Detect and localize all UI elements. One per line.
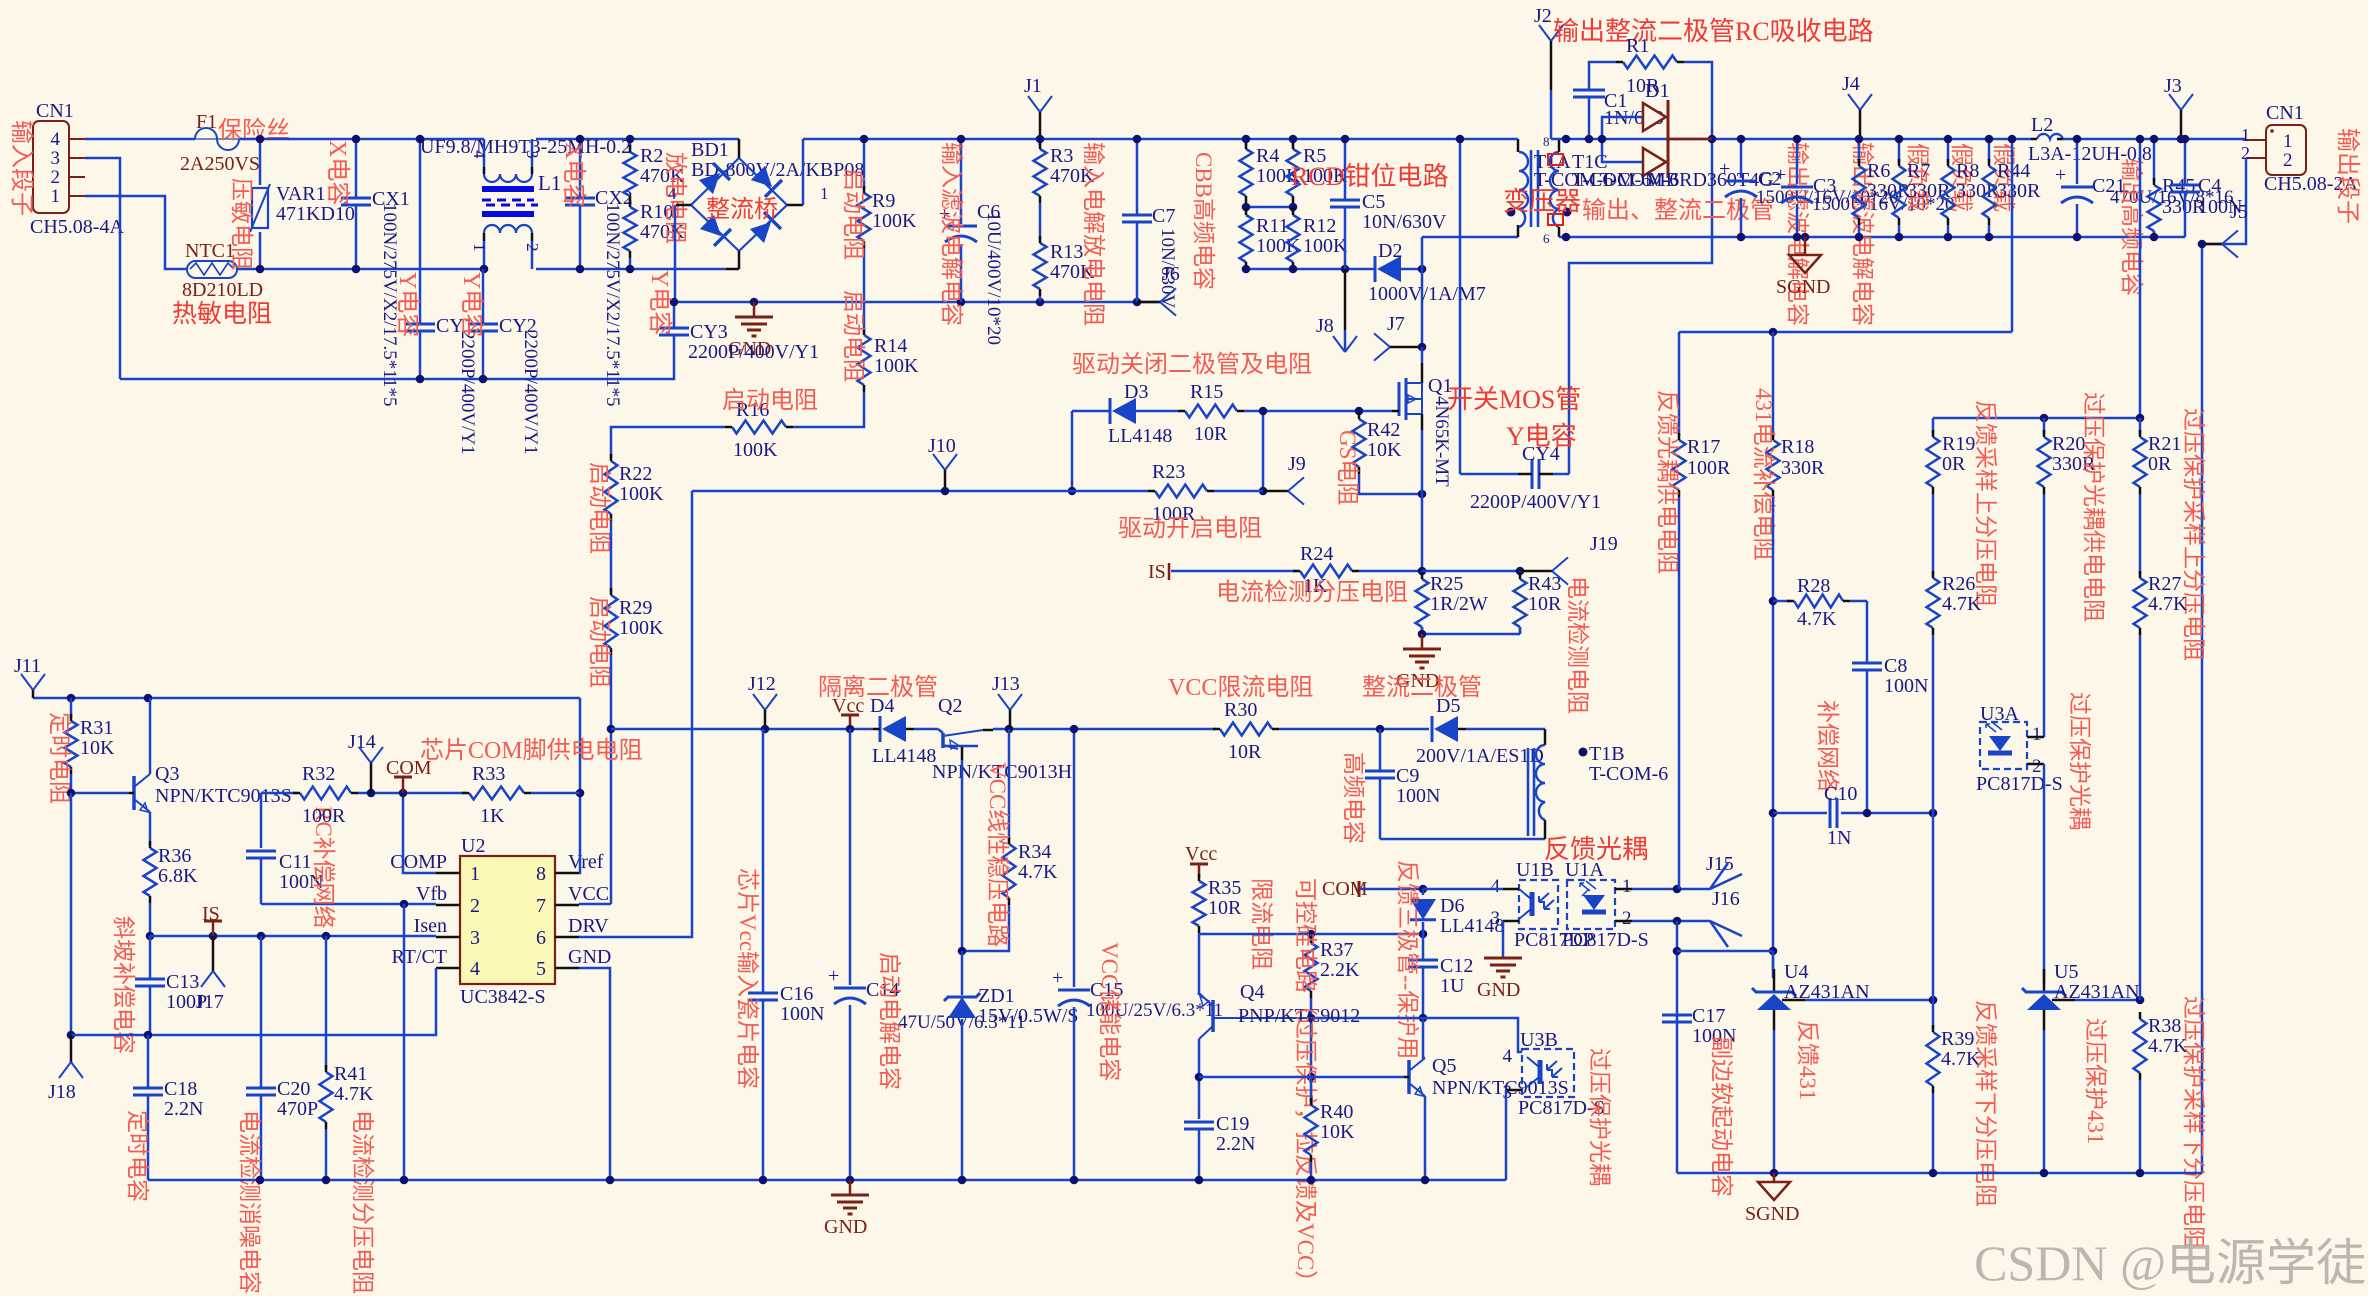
svg-text:C7: C7 bbox=[1152, 205, 1175, 227]
wire U1A pin2 to J16 bbox=[1615, 920, 1632, 923]
svg-text:4.7K: 4.7K bbox=[2148, 593, 2188, 615]
svg-text:J11: J11 bbox=[14, 655, 41, 677]
svg-text:R7: R7 bbox=[1907, 160, 1930, 182]
svg-text:C17: C17 bbox=[1692, 1005, 1725, 1027]
resistor R37 bbox=[1310, 934, 1313, 940]
resistor R20 bbox=[2043, 418, 2046, 434]
svg-text:X电容: X电容 bbox=[324, 140, 351, 205]
svg-text:R20: R20 bbox=[2052, 433, 2085, 455]
svg-text:VCC储能电容: VCC储能电容 bbox=[1097, 942, 1122, 1081]
svg-text:6.8K: 6.8K bbox=[158, 865, 198, 887]
transistor Q5 bbox=[1407, 1060, 1411, 1094]
svg-text:R41: R41 bbox=[334, 1063, 367, 1085]
signal ground SGND (bottom) bbox=[1773, 1173, 1776, 1182]
resistor R1 bbox=[1623, 56, 1677, 69]
svg-text:J5: J5 bbox=[2230, 201, 2248, 223]
wire comp network row R32/R33 bbox=[260, 793, 263, 848]
svg-text:CBB高频电容: CBB高频电容 bbox=[1191, 152, 1216, 290]
wire DRV row bbox=[692, 490, 1148, 493]
svg-text:D4: D4 bbox=[870, 695, 894, 717]
svg-text:D2: D2 bbox=[1378, 240, 1402, 262]
svg-text:3: 3 bbox=[470, 927, 480, 949]
svg-text:VCC限流电阻: VCC限流电阻 bbox=[1168, 674, 1313, 701]
svg-text:+: + bbox=[1052, 967, 1063, 989]
svg-text:1000V/1A/M7: 1000V/1A/M7 bbox=[1368, 283, 1486, 305]
svg-text:3: 3 bbox=[523, 150, 542, 159]
svg-text:T-COM-6: T-COM-6 bbox=[1589, 763, 1668, 785]
resistor R13 bbox=[1034, 243, 1047, 289]
capacitor C1 bbox=[1573, 89, 1605, 92]
svg-text:C4: C4 bbox=[2198, 175, 2221, 197]
svg-text:LL4148: LL4148 bbox=[1108, 425, 1172, 447]
svg-text:1: 1 bbox=[51, 186, 61, 207]
svg-text:7: 7 bbox=[536, 895, 546, 917]
wire IS to R24 bbox=[1171, 570, 1297, 573]
resistor R22 bbox=[605, 461, 618, 514]
svg-text:反馈采样下分压电阻: 反馈采样下分压电阻 bbox=[1973, 1000, 1998, 1207]
ground GND symbol (bridge) bbox=[753, 302, 756, 316]
svg-text:DRV: DRV bbox=[568, 915, 609, 937]
electrolytic C15 bbox=[1073, 729, 1076, 987]
svg-text:VCC线性稳压电路: VCC线性稳压电路 bbox=[985, 762, 1010, 947]
svg-text:T1B: T1B bbox=[1589, 743, 1625, 765]
wire C9 bottom to T1B bottom bbox=[1380, 838, 1545, 841]
svg-text:芯片COM脚供电电阻: 芯片COM脚供电电阻 bbox=[420, 737, 643, 764]
wire bus into transformer top pin bbox=[1517, 139, 1520, 152]
svg-text:100K: 100K bbox=[872, 210, 917, 232]
svg-text:CN1: CN1 bbox=[2266, 102, 2304, 124]
svg-text:R33: R33 bbox=[472, 763, 505, 785]
wire source down to sense bbox=[1421, 430, 1424, 494]
svg-text:+: + bbox=[1719, 158, 1730, 180]
resistor R44 bbox=[1988, 139, 1991, 163]
svg-text:R15: R15 bbox=[1190, 381, 1223, 403]
svg-text:R9: R9 bbox=[872, 190, 895, 212]
svg-text:C8: C8 bbox=[1884, 655, 1907, 677]
wire U3B pin3 down to gnd bus bbox=[1505, 1090, 1508, 1180]
svg-text:C16: C16 bbox=[780, 983, 813, 1005]
svg-text:RCD钳位电路: RCD钳位电路 bbox=[1291, 162, 1448, 191]
svg-text:启动电解电容: 启动电解电容 bbox=[877, 952, 902, 1090]
svg-text:U4: U4 bbox=[1784, 961, 1808, 983]
svg-text:J15: J15 bbox=[1706, 853, 1734, 875]
svg-text:F1: F1 bbox=[196, 111, 217, 133]
svg-text:R26: R26 bbox=[1942, 573, 1975, 595]
wire Vref pin up to loop bbox=[579, 698, 580, 873]
wire R19/R26 chain down to ref bbox=[1932, 813, 1935, 1029]
wire R42 bottom to source bbox=[1359, 474, 1422, 494]
svg-text:100N: 100N bbox=[1396, 785, 1440, 807]
wire R35 bottom row bbox=[1198, 933, 1201, 995]
svg-text:C18: C18 bbox=[164, 1078, 197, 1100]
svg-text:CN1: CN1 bbox=[36, 100, 74, 122]
wire R29 to VCC node bbox=[610, 655, 613, 904]
resistor R5 bbox=[1292, 139, 1295, 146]
svg-text:IS: IS bbox=[1148, 561, 1166, 583]
svg-text:GND: GND bbox=[568, 946, 611, 968]
svg-text:Q3: Q3 bbox=[155, 763, 179, 785]
svg-text:GS电阻: GS电阻 bbox=[1335, 430, 1360, 505]
wire feedback tap row bbox=[1679, 331, 2012, 334]
ground GND (sense) bbox=[1421, 634, 1424, 648]
svg-text:驱动关闭二极管及电阻: 驱动关闭二极管及电阻 bbox=[1072, 351, 1312, 378]
resistor R33 bbox=[469, 787, 524, 800]
wire U4 ref to R39 bbox=[1782, 999, 1805, 1002]
resistor R31 bbox=[70, 698, 73, 718]
svg-text:R42: R42 bbox=[1367, 419, 1400, 441]
svg-text:Q4: Q4 bbox=[1240, 981, 1264, 1003]
wire timing row RT/CT bbox=[71, 968, 436, 1035]
svg-text:10R: 10R bbox=[1194, 423, 1228, 445]
wire R31 to base node bbox=[71, 774, 129, 793]
svg-text:电流检测电阻: 电流检测电阻 bbox=[1565, 576, 1590, 714]
resistor R36 bbox=[144, 848, 157, 896]
svg-text:定时电容: 定时电容 bbox=[125, 1110, 150, 1202]
svg-text:R13: R13 bbox=[1050, 241, 1083, 263]
svg-text:3: 3 bbox=[51, 148, 61, 169]
svg-text:R6: R6 bbox=[1867, 160, 1890, 182]
wire R16 left down to R22 bbox=[611, 427, 725, 458]
wire clamp bottom row bbox=[1246, 268, 1375, 271]
svg-text:100K: 100K bbox=[874, 355, 919, 377]
wire Q2 emitter down bbox=[961, 747, 964, 760]
svg-text:R40: R40 bbox=[1320, 1101, 1353, 1123]
svg-text:反馈光耦供电电阻: 反馈光耦供电电阻 bbox=[1655, 390, 1680, 574]
wire Vfb row bbox=[261, 903, 436, 906]
svg-text:开关MOS管: 开关MOS管 bbox=[1447, 385, 1581, 414]
wire R1 right leg down bbox=[1569, 62, 1712, 474]
wire x71 down to timing row bbox=[70, 793, 73, 1035]
resistor R17 bbox=[1678, 332, 1681, 437]
svg-text:10K: 10K bbox=[1320, 1121, 1355, 1143]
svg-text:输出段子: 输出段子 bbox=[2334, 128, 2361, 224]
resistor R11 bbox=[1240, 215, 1253, 262]
svg-text:R12: R12 bbox=[1303, 215, 1336, 237]
svg-text:R22: R22 bbox=[619, 463, 652, 485]
svg-text:驱动开启电阻: 驱动开启电阻 bbox=[1118, 515, 1262, 542]
svg-text:J6: J6 bbox=[1162, 263, 1180, 285]
svg-text:PC817D-S: PC817D-S bbox=[1976, 773, 2063, 795]
varistor VAR1 bbox=[259, 139, 262, 185]
svg-text:100N: 100N bbox=[780, 1003, 824, 1025]
svg-text:100K: 100K bbox=[1303, 235, 1348, 257]
svg-text:J8: J8 bbox=[1316, 315, 1334, 337]
capacitor C11 bbox=[246, 850, 276, 853]
svg-text:1N: 1N bbox=[1827, 827, 1851, 849]
resistor R8 bbox=[1947, 139, 1950, 163]
svg-text:1: 1 bbox=[470, 863, 480, 885]
wire node row 1018 bbox=[1311, 1018, 1522, 1052]
svg-text:J1: J1 bbox=[1024, 75, 1042, 97]
svg-text:R3: R3 bbox=[1050, 145, 1073, 167]
resistor R18 bbox=[1772, 332, 1775, 437]
diode D6 bbox=[1422, 889, 1425, 895]
svg-text:10R: 10R bbox=[1528, 593, 1562, 615]
wire Q2 collector to rail right bbox=[993, 728, 1216, 731]
wire Q3 emitter down to R36 bbox=[149, 812, 152, 845]
svg-text:输入滤波电解电容: 输入滤波电解电容 bbox=[939, 142, 964, 326]
svg-text:Isen: Isen bbox=[414, 915, 447, 937]
svg-text:0R: 0R bbox=[1942, 453, 1966, 475]
capacitor C12 bbox=[1422, 934, 1425, 960]
capacitor CY1 bbox=[419, 139, 422, 324]
svg-text:R37: R37 bbox=[1320, 939, 1353, 961]
svg-text:1K: 1K bbox=[480, 805, 505, 827]
svg-text:4.7K: 4.7K bbox=[1942, 593, 1982, 615]
svg-text:8: 8 bbox=[1543, 134, 1550, 149]
svg-text:1R/2W: 1R/2W bbox=[1430, 593, 1488, 615]
svg-text:Q5: Q5 bbox=[1432, 1055, 1456, 1077]
ground GND (opto) bbox=[1484, 957, 1522, 960]
resistor R9 bbox=[863, 139, 866, 190]
svg-text:J18: J18 bbox=[48, 1081, 76, 1103]
resistor R3 bbox=[1039, 139, 1042, 146]
svg-text:X电容: X电容 bbox=[560, 142, 587, 207]
svg-text:1: 1 bbox=[2032, 724, 2042, 745]
svg-text:R25: R25 bbox=[1430, 573, 1463, 595]
svg-text:+: + bbox=[828, 965, 839, 987]
capacitor CY3 bbox=[659, 327, 689, 330]
wire R17 down to U1A pin1 bbox=[1678, 497, 1681, 889]
capacitor C19 bbox=[1184, 1121, 1214, 1124]
svg-text:R38: R38 bbox=[2148, 1015, 2181, 1037]
svg-text:C5: C5 bbox=[1362, 191, 1385, 213]
thermistor NTC1 bbox=[187, 261, 237, 278]
svg-text:2: 2 bbox=[51, 167, 61, 188]
svg-text:U2: U2 bbox=[461, 835, 485, 857]
wire top bus fuse to L1 bbox=[240, 138, 484, 141]
electrolytic C14 (startup cap) bbox=[849, 729, 852, 985]
svg-text:R39: R39 bbox=[1941, 1028, 1974, 1050]
resistor R14 bbox=[858, 335, 871, 385]
svg-text:2A250VS: 2A250VS bbox=[180, 153, 260, 175]
diode D4 bbox=[882, 716, 906, 742]
svg-text:L2: L2 bbox=[2031, 114, 2053, 136]
svg-text:GND: GND bbox=[824, 1216, 867, 1238]
capacitor C4 bbox=[2184, 139, 2187, 185]
wire feedback tap down bbox=[2011, 139, 2014, 332]
wire top loop to J11 bbox=[33, 697, 580, 700]
capacitor C7 bbox=[1136, 139, 1139, 215]
wire Isen row bbox=[150, 935, 436, 938]
svg-text:1: 1 bbox=[2241, 125, 2250, 145]
svg-text:Vcc: Vcc bbox=[1185, 843, 1217, 865]
svg-text:6: 6 bbox=[536, 927, 546, 949]
electrolytic C21 bbox=[2076, 139, 2079, 184]
wire pin3 down to bottom rail bbox=[85, 158, 120, 379]
wire R19 to R26 bbox=[1932, 494, 1935, 575]
diode D2 bbox=[1377, 256, 1401, 282]
svg-text:COM: COM bbox=[1322, 878, 1368, 900]
capacitor C13 bbox=[149, 936, 152, 979]
svg-text:100P: 100P bbox=[166, 991, 207, 1013]
wire pin4 to fuse bbox=[85, 138, 195, 141]
svg-text:ZD1: ZD1 bbox=[978, 985, 1015, 1007]
svg-text:J13: J13 bbox=[992, 673, 1020, 695]
wire Q3 collector up bbox=[149, 698, 152, 774]
svg-text:6: 6 bbox=[1543, 231, 1550, 246]
svg-text:可控硅电路（过压保护，拉反馈及VCC）: 可控硅电路（过压保护，拉反馈及VCC） bbox=[1293, 878, 1318, 1293]
resistor R26 bbox=[1927, 578, 1940, 628]
svg-text:UC3842-S: UC3842-S bbox=[460, 986, 546, 1008]
svg-text:输出整流二极管RC吸收电路: 输出整流二极管RC吸收电路 bbox=[1553, 17, 1874, 46]
signal ground SGND (output) bbox=[1801, 233, 1810, 242]
svg-text:4: 4 bbox=[470, 150, 489, 159]
svg-text:100N: 100N bbox=[1884, 675, 1928, 697]
HV- rail (gnd rail) bbox=[675, 301, 1160, 304]
wire secondary bottom bus bbox=[1559, 236, 2185, 239]
svg-text:R17: R17 bbox=[1687, 436, 1720, 458]
resistor R12 bbox=[1287, 215, 1300, 262]
snubber loop C1/R1 top bbox=[1588, 97, 1591, 139]
svg-text:R19: R19 bbox=[1942, 433, 1975, 455]
svg-text:BD1: BD1 bbox=[691, 139, 729, 161]
svg-text:输入段子: 输入段子 bbox=[8, 120, 35, 216]
svg-text:启动电阻: 启动电阻 bbox=[841, 290, 866, 382]
svg-text:R44: R44 bbox=[1997, 160, 2030, 182]
svg-text:反馈采样上分压电阻: 反馈采样上分压电阻 bbox=[1973, 400, 1998, 607]
svg-text:R24: R24 bbox=[1300, 543, 1333, 565]
svg-text:10R: 10R bbox=[1228, 741, 1262, 763]
svg-text:U1B: U1B bbox=[1516, 859, 1554, 881]
wire U1A pin1 to J15 bbox=[1615, 888, 1632, 891]
svg-text:R1: R1 bbox=[1626, 35, 1649, 57]
wire VCC pin to startup node bbox=[579, 903, 611, 906]
svg-text:100K: 100K bbox=[619, 617, 664, 639]
connector CN1 (input) bbox=[33, 121, 69, 213]
zener ZD1 bbox=[961, 951, 964, 995]
resistor R15 bbox=[1185, 405, 1237, 418]
capacitor C17 bbox=[1662, 1014, 1692, 1017]
svg-text:2200P/400V/Y1: 2200P/400V/Y1 bbox=[457, 330, 478, 455]
ground GND (main) bbox=[849, 1180, 852, 1194]
wire NTC to neutral rail bbox=[237, 268, 484, 271]
fuse F1 bbox=[195, 128, 239, 150]
svg-text:SGND: SGND bbox=[1745, 1203, 1799, 1225]
svg-text:Q2: Q2 bbox=[938, 695, 962, 717]
wire R37 bottom to node row bbox=[1310, 998, 1313, 1077]
transformer T1C secondary winding bbox=[1550, 152, 1559, 227]
aux winding T1B bbox=[1466, 728, 1545, 731]
svg-text:10R: 10R bbox=[1208, 897, 1242, 919]
svg-text:2200P/400V/Y1: 2200P/400V/Y1 bbox=[688, 341, 819, 363]
wire main HV bus bbox=[803, 138, 1460, 141]
svg-text:1U: 1U bbox=[1440, 975, 1465, 997]
svg-text:Vref: Vref bbox=[568, 851, 604, 873]
svg-text:电流检测分压电阻: 电流检测分压电阻 bbox=[1216, 579, 1408, 606]
capacitor CY2 bbox=[482, 269, 485, 324]
wire D3/R15 right leg bbox=[1262, 411, 1265, 491]
svg-text:0R: 0R bbox=[2148, 453, 2172, 475]
electrolytic C6 bbox=[960, 139, 963, 224]
svg-text:C10: C10 bbox=[1824, 783, 1857, 805]
wire sense node to J19 bbox=[1422, 570, 1520, 573]
resistor R35 bbox=[1193, 881, 1206, 926]
wire DRV pin right and up bbox=[579, 491, 692, 937]
capacitor C9 bbox=[1379, 729, 1382, 771]
svg-text:8: 8 bbox=[536, 863, 546, 885]
resistor R34 bbox=[1008, 729, 1011, 841]
svg-text:R35: R35 bbox=[1208, 877, 1241, 899]
svg-text:RT/CT: RT/CT bbox=[392, 946, 447, 968]
svg-text:R8: R8 bbox=[1956, 160, 1979, 182]
svg-text:2200P/400V/Y1: 2200P/400V/Y1 bbox=[1470, 491, 1601, 513]
svg-text:2: 2 bbox=[2283, 150, 2293, 171]
wire R26 down bbox=[1932, 635, 1935, 813]
svg-text:15V/0.5W/S: 15V/0.5W/S bbox=[978, 1005, 1079, 1027]
svg-text:R31: R31 bbox=[80, 717, 113, 739]
svg-text:+: + bbox=[1775, 164, 1786, 186]
wire Vfb down to gnd bus bbox=[403, 904, 406, 1180]
electrolytic C2 bbox=[1740, 139, 1743, 178]
svg-text:R11: R11 bbox=[1256, 215, 1289, 237]
svg-text:4.7K: 4.7K bbox=[1797, 608, 1837, 630]
svg-text:J2: J2 bbox=[1534, 5, 1552, 27]
wire U1B pin3 to gnd bbox=[1503, 920, 1519, 923]
svg-text:2.2N: 2.2N bbox=[1216, 1133, 1255, 1155]
svg-text:限流电阻: 限流电阻 bbox=[1249, 878, 1274, 970]
wire R27 down to ref node bbox=[2139, 635, 2142, 1000]
svg-text:Y电容: Y电容 bbox=[1506, 422, 1577, 451]
svg-text:电流检测消噪电容: 电流检测消噪电容 bbox=[237, 1110, 262, 1294]
wire bottom rail to CY3 bbox=[120, 341, 674, 379]
svg-text:补偿网络: 补偿网络 bbox=[1815, 700, 1840, 792]
secondary ground bus bbox=[1677, 1172, 2202, 1175]
svg-text:100N/275V/X2/17.5*11*5: 100N/275V/X2/17.5*11*5 bbox=[602, 203, 623, 407]
svg-text:4.7K: 4.7K bbox=[1018, 861, 1058, 883]
svg-text:COMP: COMP bbox=[390, 851, 447, 873]
wire R4/R5 mid junction bbox=[1245, 203, 1248, 212]
capacitor C5 bbox=[1344, 139, 1347, 200]
wire primary return to drain bbox=[1421, 237, 1424, 347]
svg-text:D5: D5 bbox=[1436, 695, 1460, 717]
wire GND pin down to gnd bus bbox=[579, 968, 610, 1180]
svg-text:2: 2 bbox=[2032, 756, 2042, 777]
svg-text:1: 1 bbox=[1622, 876, 1632, 897]
svg-text:反馈三极管--保护用: 反馈三极管--保护用 bbox=[1395, 860, 1420, 1059]
svg-text:过压保护采样下分压电阻: 过压保护采样下分压电阻 bbox=[2181, 996, 2206, 1249]
svg-text:R21: R21 bbox=[2148, 433, 2181, 455]
svg-text:过压保护光耦: 过压保护光耦 bbox=[1587, 1048, 1612, 1186]
wire R30 to D5 bbox=[1279, 728, 1429, 731]
svg-text:Vfb: Vfb bbox=[416, 883, 447, 905]
capacitor C18 bbox=[147, 1035, 150, 1088]
svg-text:输出、整流二极管: 输出、整流二极管 bbox=[1582, 197, 1774, 224]
svg-text:100R: 100R bbox=[1687, 457, 1731, 479]
svg-text:2.2N: 2.2N bbox=[164, 1098, 203, 1120]
svg-text:470P: 470P bbox=[277, 1098, 318, 1120]
svg-text:1: 1 bbox=[2283, 131, 2293, 152]
resistor R45 bbox=[2153, 139, 2156, 182]
svg-text:Y电容: Y电容 bbox=[646, 270, 673, 335]
resistor R19 bbox=[1932, 418, 1935, 434]
resistor R21 bbox=[2139, 418, 2142, 434]
svg-text:启动电阻: 启动电阻 bbox=[587, 462, 612, 554]
wire Q5 emitter down bbox=[1424, 1096, 1427, 1180]
wire COMP loop bbox=[403, 793, 436, 873]
svg-text:NPN/KTC9013S: NPN/KTC9013S bbox=[1432, 1077, 1569, 1099]
svg-text:C13: C13 bbox=[166, 971, 199, 993]
capacitor C10 row bbox=[1773, 812, 1827, 815]
svg-text:D6: D6 bbox=[1440, 895, 1464, 917]
svg-text:C12: C12 bbox=[1440, 955, 1473, 977]
svg-text:J3: J3 bbox=[2164, 75, 2182, 97]
wire R36 to Isen row bbox=[149, 903, 152, 936]
svg-text:10K: 10K bbox=[1367, 439, 1402, 461]
svg-text:VCC: VCC bbox=[568, 883, 609, 905]
resistor R10 bbox=[624, 207, 637, 251]
svg-text:过压保护采样上分压电阻: 过压保护采样上分压电阻 bbox=[2181, 408, 2206, 661]
